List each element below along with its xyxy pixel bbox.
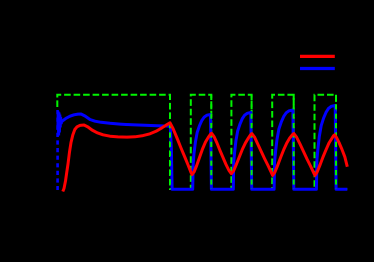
blue dashed onset vertical at first pulse rise xyxy=(56,110,59,190)
legend: blue sample line xyxy=(300,67,335,70)
blue onset noise burst xyxy=(58,111,63,136)
blue fast-response curve xyxy=(62,106,347,190)
green dashed input square wave xyxy=(57,95,347,189)
green dashed verticals redrawn over blue at pulse falls xyxy=(170,95,336,189)
red slow-response curve xyxy=(63,123,348,192)
legend: red sample line xyxy=(300,55,335,58)
